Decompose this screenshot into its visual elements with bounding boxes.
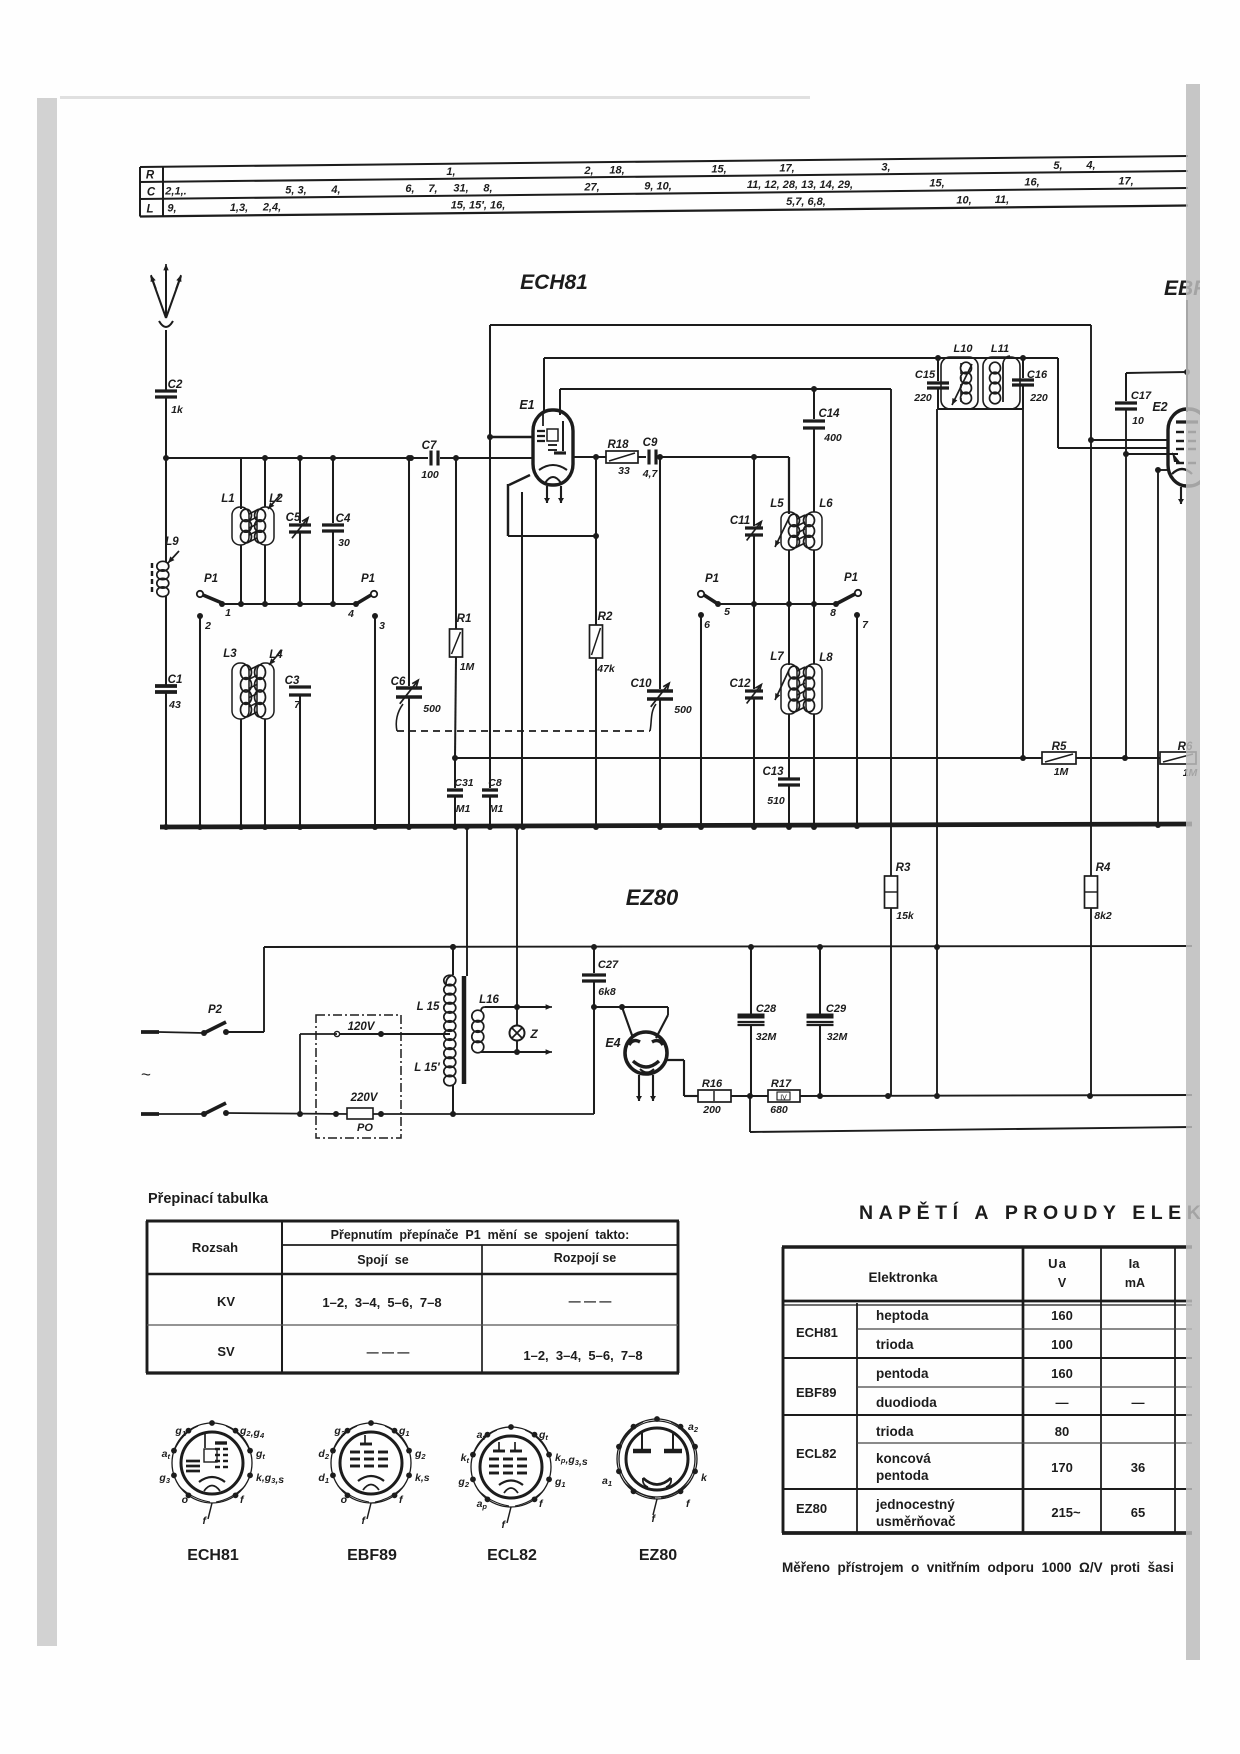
svg-text:16,: 16,: [1024, 177, 1039, 189]
svg-text:C5: C5: [286, 512, 301, 524]
svg-text:Ia: Ia: [1129, 1256, 1141, 1271]
svg-text:L 15: L 15: [417, 1001, 440, 1013]
svg-text:1,3,: 1,3,: [230, 202, 248, 214]
svg-text:EBF89: EBF89: [347, 1547, 397, 1564]
voltage selector box: [300, 1015, 450, 1138]
wire grid lead: [490, 436, 533, 438]
svg-text:R17: R17: [771, 1078, 792, 1090]
svg-text:7,: 7,: [428, 183, 437, 195]
svg-text:EZ80: EZ80: [639, 1547, 677, 1564]
svg-text:C7: C7: [422, 440, 437, 452]
svg-text:L6: L6: [819, 498, 833, 510]
capacitor C28: [738, 947, 777, 1096]
resistor R16: [698, 1078, 731, 1116]
wire E2 top feed: [1186, 300, 1188, 412]
svg-text:15k: 15k: [896, 910, 915, 922]
switch P1 contact 3: [372, 613, 385, 826]
wire screen feed: [1088, 325, 1094, 876]
resistor R6: [1160, 741, 1198, 779]
switch P1 section b: [347, 573, 377, 620]
resistor R18: [606, 439, 638, 477]
capacitor C5: [286, 458, 311, 604]
capacitor C16: [1012, 358, 1048, 409]
svg-text:mA: mA: [1125, 1276, 1145, 1290]
tube E2 heater pin: [1180, 487, 1182, 504]
svg-text:27,: 27,: [583, 181, 599, 193]
svg-text:4,: 4,: [1085, 160, 1095, 172]
capacitor C27: [582, 947, 619, 1114]
svg-text:Elektronka: Elektronka: [868, 1270, 938, 1285]
svg-text:duodioda: duodioda: [876, 1395, 937, 1410]
svg-text:—: —: [1132, 1395, 1145, 1410]
capacitor C29: [807, 947, 848, 1096]
svg-text:C28: C28: [756, 1003, 777, 1015]
svg-text:2,1,.: 2,1,.: [164, 186, 186, 198]
svg-text:M1: M1: [456, 803, 471, 815]
svg-text:33: 33: [618, 465, 630, 477]
svg-text:1,: 1,: [446, 166, 455, 178]
component index table: [140, 156, 1188, 217]
wire IF secondary AVC: [1020, 409, 1026, 761]
capacitor C2: [155, 379, 184, 458]
svg-text:Měřeno přístrojem o vnitřní: Měřeno přístrojem o vnitřním odporu 1000…: [782, 1560, 1174, 1575]
svg-text:160: 160: [1051, 1308, 1073, 1323]
svg-text:3: 3: [379, 620, 385, 632]
svg-text:P1: P1: [361, 573, 375, 585]
svg-text:8,: 8,: [483, 182, 492, 194]
svg-text:500: 500: [423, 703, 441, 715]
node grid junction: [487, 434, 493, 440]
wire main grid rail: [166, 457, 789, 458]
svg-text:ECL82: ECL82: [487, 1547, 537, 1564]
svg-text:k,s: k,s: [415, 1472, 430, 1484]
svg-text:C15: C15: [915, 369, 936, 381]
svg-text:E4: E4: [605, 1036, 620, 1050]
svg-text:ECH81: ECH81: [796, 1325, 838, 1340]
svg-text:36: 36: [1131, 1460, 1145, 1475]
svg-text:C16: C16: [1027, 369, 1048, 381]
svg-text:2,4,: 2,4,: [262, 202, 281, 214]
svg-text:400: 400: [823, 432, 842, 444]
svg-text:1M: 1M: [460, 661, 475, 673]
svg-text:P1: P1: [705, 573, 719, 585]
svg-text:215~: 215~: [1051, 1505, 1081, 1520]
svg-text:5, 3,: 5, 3,: [285, 184, 306, 196]
svg-text:L5: L5: [770, 498, 784, 510]
svg-text:R5: R5: [1052, 741, 1067, 753]
svg-text:32M: 32M: [756, 1031, 777, 1043]
svg-text:C10: C10: [630, 678, 652, 690]
voltage current table: [782, 1200, 1240, 1533]
switch P1 contact 6: [698, 612, 710, 826]
tube E4 heater pins: [636, 1075, 656, 1101]
socket ECL82: [457, 1424, 587, 1531]
capacitor C31: [447, 758, 474, 826]
svg-text:Přepinací tabulka: Přepinací tabulka: [148, 1191, 269, 1207]
svg-text:15,: 15,: [711, 163, 726, 175]
svg-text:C31: C31: [454, 777, 473, 789]
svg-text:6k8: 6k8: [598, 986, 616, 998]
svg-text:11, 12, 28, 13, 14, 29,: 11, 12, 28, 13, 14, 29,: [747, 179, 853, 191]
svg-text:ECH81: ECH81: [187, 1547, 239, 1564]
svg-text:1–2, 3–4, 5–6, 7–8: 1–2, 3–4, 5–6, 7–8: [322, 1295, 441, 1310]
svg-text:jednocestný: jednocestný: [875, 1497, 955, 1512]
capacitor C1: [155, 674, 182, 826]
svg-text:C14: C14: [818, 408, 840, 420]
svg-text:Rozpojí se: Rozpojí se: [554, 1251, 617, 1265]
svg-text:680: 680: [770, 1104, 788, 1116]
wire switch row middle: [718, 603, 836, 605]
node taps on grid rail: [262, 455, 414, 461]
transformer L1 L2: [221, 458, 283, 604]
svg-text:C6: C6: [391, 676, 406, 688]
svg-text:31,: 31,: [453, 183, 468, 195]
svg-text:1k: 1k: [171, 404, 184, 416]
svg-text:30: 30: [338, 537, 350, 549]
capacitor C10: [630, 454, 691, 826]
svg-text:C8: C8: [488, 777, 502, 789]
svg-text:220V: 220V: [350, 1092, 379, 1104]
svg-text:IV: IV: [780, 1095, 787, 1102]
transformer L10 L11: [935, 343, 1026, 409]
svg-text:R18: R18: [607, 439, 629, 451]
wire E4 cathode: [666, 1060, 698, 1096]
svg-text:1: 1: [225, 607, 231, 619]
svg-text:ECL82: ECL82: [796, 1446, 836, 1461]
coil L9: [152, 458, 179, 685]
wire switch row left: [222, 603, 356, 605]
svg-text:P1: P1: [204, 573, 218, 585]
svg-text:200: 200: [702, 1104, 721, 1116]
wire mains lower: [297, 1111, 594, 1117]
svg-text:V: V: [1058, 1276, 1067, 1290]
capacitor C12: [729, 604, 763, 826]
capacitor C17: [1115, 369, 1190, 761]
svg-text:100: 100: [1051, 1337, 1073, 1352]
wire HT line: [731, 1093, 1192, 1099]
svg-text:P1: P1: [844, 572, 858, 584]
switch P1 contact 7: [854, 612, 869, 826]
capacitor C9: [642, 437, 659, 480]
transformer L15: [414, 944, 464, 1114]
svg-text:170: 170: [1051, 1460, 1073, 1475]
svg-text:Rozsah: Rozsah: [192, 1240, 238, 1255]
svg-text:E2: E2: [1152, 400, 1167, 414]
socket ECH81: [158, 1420, 284, 1527]
svg-text:L9: L9: [165, 536, 179, 548]
resistor R2: [590, 454, 616, 826]
svg-text:R1: R1: [457, 613, 472, 625]
svg-text:18,: 18,: [609, 164, 624, 176]
tube E2 cathode: [1155, 467, 1168, 826]
wire E2 screen lead: [1126, 453, 1178, 455]
socket EBF89: [318, 1420, 429, 1527]
svg-text:47k: 47k: [596, 663, 616, 675]
svg-text:65: 65: [1131, 1505, 1145, 1520]
svg-text:Z: Z: [529, 1027, 538, 1041]
capacitor C6: [391, 458, 441, 826]
svg-text:koncová: koncová: [876, 1451, 931, 1466]
svg-text:1–2, 3–4, 5–6, 7–8: 1–2, 3–4, 5–6, 7–8: [523, 1348, 642, 1363]
svg-text:100: 100: [421, 469, 439, 481]
switch P1 section d: [830, 572, 861, 619]
svg-text:9,: 9,: [167, 203, 176, 215]
capacitor C4: [322, 458, 351, 604]
svg-text:8k2: 8k2: [1094, 910, 1112, 922]
svg-text:C11: C11: [730, 515, 750, 527]
svg-text:L1: L1: [221, 493, 234, 505]
gang link dashed: [396, 704, 656, 731]
svg-text:C1: C1: [168, 674, 183, 686]
resistor R3: [885, 862, 915, 1096]
svg-text:Spojí se: Spojí se: [357, 1253, 408, 1267]
tube E1: [533, 410, 573, 485]
svg-text:EZ80: EZ80: [626, 885, 679, 910]
wire heater ground / lamp: [514, 824, 520, 1055]
ground bus junctions: [163, 822, 1161, 830]
svg-text:10: 10: [1132, 415, 1144, 427]
svg-text:6,: 6,: [405, 183, 414, 195]
svg-text:500: 500: [674, 704, 692, 716]
svg-text:R16: R16: [702, 1078, 723, 1090]
wire top line H1: [490, 325, 1091, 437]
transformer L7 L8: [770, 604, 833, 826]
svg-text:3,: 3,: [881, 162, 890, 174]
svg-text:510: 510: [767, 795, 785, 807]
transformer L5 L6: [770, 457, 833, 604]
svg-text:ECH81: ECH81: [520, 271, 588, 294]
svg-text:R4: R4: [1096, 862, 1111, 874]
wire core ground: [464, 824, 470, 976]
svg-text:2: 2: [204, 620, 211, 632]
svg-text:80: 80: [1055, 1424, 1069, 1439]
svg-text:L3: L3: [223, 648, 237, 660]
svg-text:15, 15′, 16,: 15, 15′, 16,: [451, 199, 506, 211]
svg-text:C13: C13: [762, 766, 784, 778]
svg-text:9, 10,: 9, 10,: [644, 181, 672, 193]
capacitor C15: [913, 358, 949, 409]
svg-text:10,: 10,: [956, 194, 971, 206]
svg-text:k,g3,s: k,g3,s: [256, 1472, 284, 1486]
resistor R4: [1085, 862, 1112, 1096]
resistor R17: [768, 1078, 800, 1116]
fuse PO: [347, 1108, 373, 1119]
resistor R1: [450, 455, 475, 758]
switching table: [146, 1191, 679, 1373]
svg-text:2,: 2,: [583, 165, 593, 177]
wire IF primary feed: [936, 409, 938, 1096]
svg-text:C29: C29: [826, 1003, 847, 1015]
svg-text:4,: 4,: [330, 184, 340, 196]
svg-text:L8: L8: [819, 652, 833, 664]
svg-text:8: 8: [830, 607, 836, 619]
svg-text:pentoda: pentoda: [876, 1468, 929, 1483]
svg-text:EBF89: EBF89: [796, 1385, 836, 1400]
svg-text:~: ~: [141, 1065, 151, 1084]
svg-text:220: 220: [1029, 392, 1048, 404]
antenna: [151, 264, 182, 390]
svg-text:43: 43: [168, 699, 181, 711]
svg-text:— — —: — — —: [367, 1345, 410, 1359]
svg-text:C3: C3: [285, 675, 300, 687]
wire shield ground: [521, 492, 523, 826]
resistor R5: [1042, 741, 1076, 778]
svg-text:PO: PO: [357, 1122, 373, 1134]
svg-text:R3: R3: [896, 862, 911, 874]
svg-text:o: o: [341, 1494, 348, 1506]
svg-text:L16: L16: [479, 994, 499, 1006]
capacitor C3: [285, 675, 311, 826]
switch P1 contact 2: [197, 613, 211, 826]
capacitor C11: [730, 454, 763, 604]
switch P1 section c: [698, 573, 730, 618]
tube E1 heater pins: [544, 486, 564, 503]
svg-text:L7: L7: [770, 651, 784, 663]
svg-text:P2: P2: [208, 1004, 223, 1016]
svg-text:E1: E1: [519, 398, 534, 412]
socket EZ80: [602, 1416, 708, 1525]
svg-text:11,: 11,: [995, 194, 1009, 206]
svg-text:heptoda: heptoda: [876, 1308, 929, 1323]
svg-text:C17: C17: [1131, 390, 1152, 402]
svg-text:L11: L11: [991, 343, 1009, 355]
svg-text:4: 4: [347, 608, 354, 620]
svg-text:5,7, 6,8,: 5,7, 6,8,: [786, 196, 826, 208]
wire top line H2: [544, 358, 1168, 448]
svg-text:L 15′: L 15′: [414, 1062, 441, 1074]
svg-text:L10: L10: [954, 343, 974, 355]
node antenna junction: [163, 455, 169, 461]
wire B+ line: [264, 944, 1192, 950]
svg-text:C4: C4: [336, 513, 351, 525]
svg-text:120V: 120V: [348, 1021, 376, 1033]
svg-text:6: 6: [704, 619, 710, 631]
svg-text:5,: 5,: [1053, 160, 1062, 172]
svg-text:Přepnutím přepínače P1 mění: Přepnutím přepínače P1 mění se spojení t…: [331, 1228, 630, 1242]
svg-text:SV: SV: [217, 1344, 235, 1359]
svg-text:15,: 15,: [929, 178, 944, 190]
svg-text:KV: KV: [217, 1294, 235, 1309]
svg-text:C12: C12: [729, 678, 751, 690]
wire oscillator feed: [890, 389, 892, 876]
svg-text:o: o: [182, 1494, 189, 1506]
lamp Z: [510, 1026, 539, 1042]
switch P2 upper: [141, 947, 264, 1036]
svg-text:32M: 32M: [827, 1031, 848, 1043]
svg-text:17,: 17,: [1118, 176, 1133, 188]
svg-text:160: 160: [1051, 1366, 1073, 1381]
svg-text:U a: U a: [1048, 1256, 1066, 1271]
svg-text:EZ80: EZ80: [796, 1501, 827, 1516]
tube E2: [1168, 409, 1208, 486]
tube E4: [625, 1032, 667, 1074]
wire E2 grid lead: [1091, 439, 1168, 441]
svg-text:17,: 17,: [779, 163, 794, 175]
node cathode-R2: [593, 533, 599, 539]
svg-text:pentoda: pentoda: [876, 1366, 929, 1381]
svg-text:C9: C9: [643, 437, 658, 449]
svg-text:trioda: trioda: [876, 1424, 914, 1439]
svg-text:NAPĚTÍ A PROUDY ELEKTRONEK: NAPĚTÍ A PROUDY ELEKTRONEK: [859, 1200, 1240, 1224]
svg-text:220: 220: [913, 392, 932, 404]
capacitor C13: [762, 766, 800, 826]
wire AVC line: [455, 757, 1177, 759]
ground bus: [160, 824, 1192, 827]
wire top line H3: [560, 389, 891, 415]
wire output line: [750, 1096, 1192, 1132]
svg-text:—: —: [1056, 1395, 1069, 1410]
capacitor C7: [421, 440, 439, 481]
node C6 top: [406, 455, 412, 461]
svg-text:C27: C27: [598, 959, 619, 971]
switch P1 section a: [197, 573, 231, 619]
svg-text:trioda: trioda: [876, 1337, 914, 1352]
svg-text:C2: C2: [168, 379, 183, 391]
capacitor C8: [482, 437, 503, 826]
wire E1 cathode: [508, 475, 596, 536]
svg-text:1M: 1M: [1054, 766, 1069, 778]
capacitor C14: [803, 386, 842, 512]
wire rectifier anodes: [594, 1004, 668, 1038]
svg-text:— — —: — — —: [569, 1294, 612, 1308]
svg-text:5: 5: [724, 606, 730, 618]
node AVC left: [452, 755, 458, 761]
svg-text:usměrňovač: usměrňovač: [876, 1514, 956, 1529]
transformer L3 L4: [223, 648, 283, 826]
svg-text:4,7: 4,7: [642, 468, 659, 480]
svg-text:R: R: [146, 170, 155, 182]
coil L16: [472, 994, 552, 1055]
svg-text:L: L: [146, 204, 153, 216]
svg-text:R2: R2: [598, 611, 613, 623]
switch P2 lower: [141, 1103, 349, 1117]
svg-text:C: C: [147, 187, 156, 199]
